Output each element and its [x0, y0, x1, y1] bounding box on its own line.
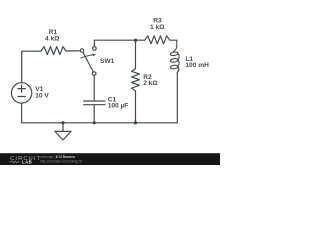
svg-text:4 kΩ: 4 kΩ [45, 35, 60, 42]
node dot ground [61, 121, 64, 124]
node dot R2 bottom [134, 121, 137, 124]
voltage source V1 [11, 83, 31, 103]
watermark bar [0, 153, 220, 165]
wire C1 bottom [93, 105, 95, 123]
wire V1 bottom [22, 103, 62, 123]
svg-text:100 mH: 100 mH [185, 62, 209, 69]
wire bottom rail [62, 122, 178, 124]
svg-text:http://circuitlab.com/c/34qc78: http://circuitlab.com/c/34qc78 [41, 159, 83, 163]
wire top rail to R3 [136, 39, 145, 41]
inductor L1 [170, 40, 179, 72]
node dot R2 top [134, 39, 137, 42]
switch SW1 [80, 49, 83, 52]
wire L1 bottom [176, 72, 178, 123]
wire R2 top [135, 40, 137, 68]
resistor R2 [132, 69, 140, 92]
svg-text:2 kΩ: 2 kΩ [143, 80, 158, 87]
node dot C1 bottom [93, 121, 96, 124]
svg-text:LAB: LAB [22, 160, 32, 165]
svg-text:1 kΩ: 1 kΩ [150, 24, 165, 31]
wire switch top to rail [94, 40, 134, 46]
svg-text:100 µF: 100 µF [108, 103, 129, 110]
ground [62, 123, 64, 132]
wire R2 bottom [135, 91, 137, 123]
resistor R3 [145, 36, 177, 44]
CircuitLab logo [10, 155, 83, 165]
capacitor C1 [84, 101, 105, 105]
switch arrow head [93, 54, 97, 57]
resistor R1 [41, 47, 81, 55]
wire left rail top [22, 51, 41, 82]
svg-text:SW1: SW1 [100, 58, 115, 65]
wire switch to C1 [93, 75, 95, 101]
svg-text:10 V: 10 V [35, 93, 49, 100]
